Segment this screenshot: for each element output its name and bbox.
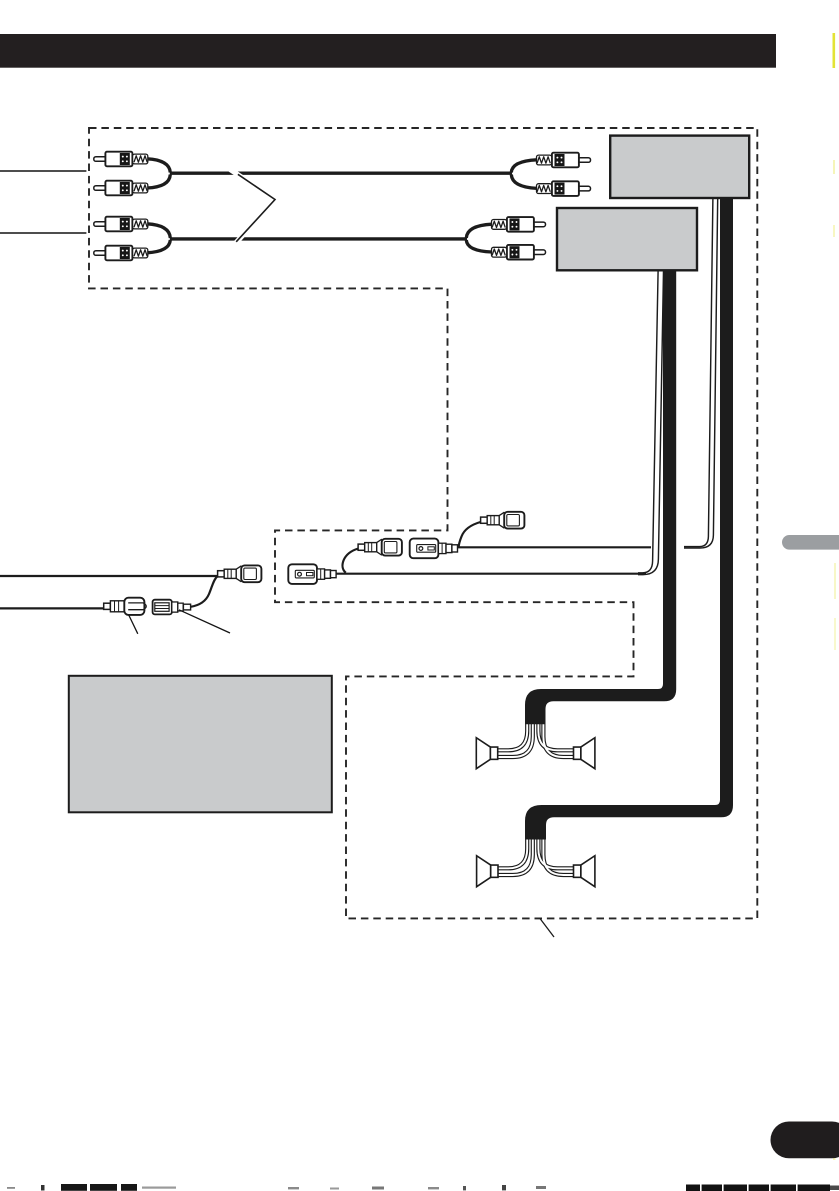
- row-3 upper wire: [0, 575, 218, 577]
- row-3 lower wire: [0, 607, 104, 609]
- side tab gray: [782, 535, 839, 550]
- header bar: [0, 34, 776, 68]
- speaker 2 left: [477, 856, 498, 887]
- leader line (disconnect F): [179, 610, 230, 633]
- speaker wires set 1: [496, 712, 576, 757]
- male disconnect Bq: [358, 539, 402, 556]
- gray box 2 (amplifier unit): [557, 208, 697, 270]
- RCA plug R1: [537, 153, 591, 168]
- RCA plug R3: [492, 217, 546, 232]
- row-3 pigtail to female disconnect: [191, 576, 218, 607]
- yellow page-edge marks: [833, 33, 837, 1160]
- RCA cable 1 (upper run): [147, 159, 537, 189]
- RCA plug L2: [94, 181, 148, 196]
- thick speaker cable 1 (from box 2): [525, 270, 676, 724]
- row-1 pigtail from connector C: [459, 522, 481, 547]
- speaker 1 left: [476, 738, 497, 769]
- leader line (left, to rear output pair): [0, 170, 86, 172]
- thick speaker cable 2 (from box 1): [525, 198, 733, 840]
- leader line (lug E): [129, 615, 138, 634]
- leader line (speaker box): [540, 919, 554, 938]
- row-2 pigtail from connector Bq: [343, 549, 359, 573]
- male disconnect C: [481, 512, 525, 529]
- speaker wires set 2: [496, 828, 576, 875]
- female disconnect D1: [410, 539, 458, 559]
- speaker 1 right: [574, 738, 595, 769]
- RCA plug R4: [492, 245, 546, 260]
- thin lead cable A (from box 1, to row-1 wire): [684, 198, 718, 548]
- RCA cable 2 (lower run): [147, 224, 492, 253]
- male disconnect A: [218, 565, 262, 582]
- male spade lug E: [104, 598, 147, 615]
- female disconnect D2: [288, 564, 336, 584]
- RCA plug L3: [94, 217, 148, 232]
- bottom cut-off text: [7, 1184, 839, 1191]
- gray box 3 (note panel): [69, 676, 332, 813]
- RCA plug R2: [537, 181, 591, 196]
- dashed outline region: [89, 128, 757, 918]
- cable-break mark: [230, 169, 275, 244]
- page tab black: [771, 1122, 839, 1159]
- RCA plug L1: [94, 152, 148, 167]
- RCA plug L4: [94, 246, 148, 261]
- row-1 wire: [458, 546, 652, 548]
- speaker 2 right: [574, 856, 595, 887]
- female ridged disconnect F: [153, 600, 191, 615]
- thin lead cable B (from box 2, to row-2 wire): [638, 271, 664, 575]
- gray box 1 (hideaway unit): [610, 136, 749, 198]
- leader line (left, to front output pair): [0, 232, 86, 234]
- row-2 wire: [336, 573, 646, 575]
